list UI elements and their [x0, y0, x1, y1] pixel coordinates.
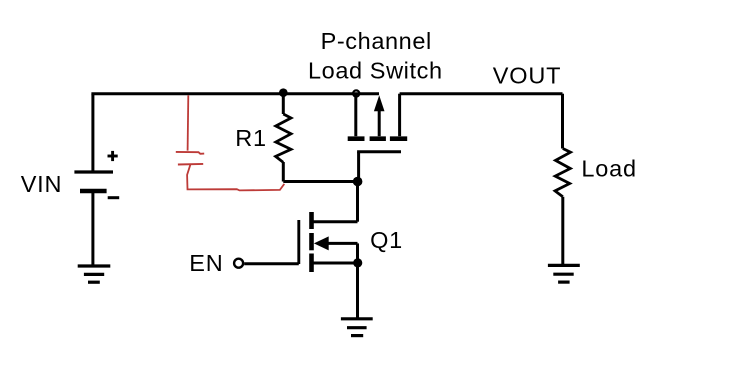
label P-channel Load Switch	[308, 28, 443, 84]
wire top rail VIN to PMOS	[91, 92, 379, 95]
node open circle PMOS source terminal on rail	[353, 90, 359, 96]
label - battery negative	[108, 196, 120, 199]
wire VOUT rail	[400, 92, 563, 95]
wire PMOS gate node down to Q1 drain	[312, 182, 358, 222]
svg-text:VOUT: VOUT	[493, 63, 561, 89]
svg-text:VIN: VIN	[21, 171, 63, 197]
ground battery	[78, 266, 111, 282]
svg-text:Load Switch: Load Switch	[308, 57, 443, 83]
wire VOUT down to load	[561, 94, 564, 149]
node junction dot PMOS gate	[353, 177, 363, 187]
wire Q1 source to ground	[356, 263, 359, 319]
node junction dot Q1 source	[353, 258, 362, 267]
svg-text:Load: Load	[581, 156, 636, 182]
resistor R1	[276, 94, 291, 182]
capacitor C1 red input cap lead from rail	[187, 95, 190, 150]
svg-text:P-channel: P-channel	[321, 28, 432, 54]
wire battery top lead	[91, 94, 94, 172]
wire EN to Q1 gate	[244, 262, 299, 265]
transistor Q1 NMOS	[299, 212, 358, 272]
ground Q1	[341, 319, 373, 336]
svg-text:EN: EN	[189, 250, 223, 276]
capacitor C1 red plates	[176, 152, 204, 165]
svg-text:R1: R1	[235, 125, 267, 151]
op-amp none; transistor PMOS load switch U1	[348, 94, 408, 182]
label + battery positive	[108, 151, 118, 161]
svg-text:Q1: Q1	[370, 227, 403, 253]
resistor Load	[555, 149, 571, 266]
wire red capacitor bottom lead to R1 bottom node	[187, 165, 284, 191]
node junction dot R1 top	[279, 88, 288, 97]
wire R1 bottom to PMOS gate node	[283, 180, 357, 183]
node open circle EN terminal	[234, 259, 243, 268]
battery VIN	[74, 172, 113, 191]
wire battery bottom lead	[91, 191, 94, 266]
ground load	[548, 265, 580, 282]
